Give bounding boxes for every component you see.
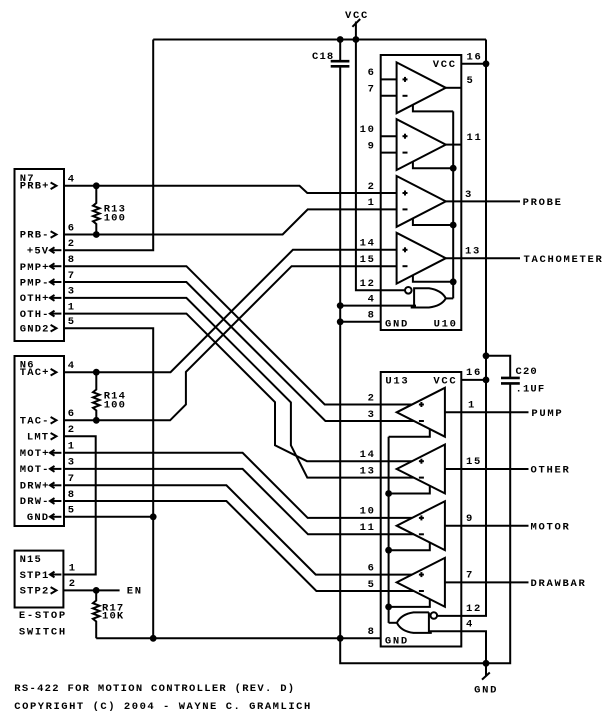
U13 enable net verticals and stubs — [385, 429, 430, 623]
svg-text:1: 1 — [68, 301, 76, 313]
svg-text:15: 15 — [466, 456, 482, 468]
svg-text:6: 6 — [368, 67, 376, 79]
svg-text:13: 13 — [465, 246, 481, 258]
svg-text:2: 2 — [69, 578, 77, 590]
wire U13 pin 16 stub to right rail — [461, 379, 486, 381]
U10 pin 9 stub — [381, 152, 397, 154]
svg-text:GND2: GND2 — [20, 324, 50, 336]
svg-text:U13: U13 — [385, 376, 409, 388]
svg-text:E-STOP: E-STOP — [19, 610, 67, 622]
svg-text:6: 6 — [368, 562, 376, 574]
svg-text:13: 13 — [360, 465, 376, 477]
svg-text:10: 10 — [360, 124, 376, 136]
svg-text:SWITCH: SWITCH — [19, 627, 67, 639]
op-amp U13B receiver OTHER — [397, 445, 445, 494]
svg-text:OTH+: OTH+ — [20, 293, 50, 305]
op-amp U10D receiver TACHOMETER — [397, 233, 446, 284]
svg-text:LMT: LMT — [27, 432, 49, 444]
op-amp U10A receiver — [397, 62, 446, 113]
svg-text:3: 3 — [68, 286, 76, 298]
node junction pin16 U13 on right rail — [483, 377, 490, 384]
N6 pin 2 LMT — [27, 424, 76, 444]
svg-text:N15: N15 — [20, 554, 42, 566]
svg-text:MOTOR: MOTOR — [531, 521, 571, 533]
power symbol VCC — [345, 10, 369, 41]
svg-text:2: 2 — [368, 393, 376, 405]
svg-text:VCC: VCC — [433, 59, 457, 71]
N6 pin 4 TAC+ — [20, 360, 76, 379]
svg-text:3: 3 — [465, 189, 473, 201]
svg-text:COPYRIGHT (C) 2004 - WAYNE C.: COPYRIGHT (C) 2004 - WAYNE C. GRAMLICH — [14, 701, 312, 713]
svg-text:11: 11 — [360, 522, 376, 534]
resistor R14 — [93, 369, 126, 424]
svg-text:DRW+: DRW+ — [20, 481, 50, 493]
N6 pin 7 DRW+ — [20, 473, 76, 492]
svg-text:MOT-: MOT- — [20, 464, 50, 476]
svg-text:EN: EN — [127, 586, 143, 598]
svg-text:100: 100 — [104, 213, 126, 225]
svg-text:5: 5 — [68, 316, 76, 328]
svg-text:14: 14 — [360, 449, 376, 461]
svg-text:7: 7 — [466, 570, 474, 582]
svg-text:8: 8 — [68, 489, 76, 501]
U13 enable OR gate with inverted pin 12 input — [368, 603, 482, 638]
capacitor C18 — [312, 40, 349, 67]
svg-text:10: 10 — [360, 506, 376, 518]
wire +5V from N7 up to VCC rail — [64, 40, 153, 251]
svg-text:6: 6 — [68, 222, 76, 234]
svg-text:7: 7 — [368, 84, 376, 96]
svg-text:STP2: STP2 — [20, 586, 50, 598]
wire U13 pin 4 down to ground line — [430, 631, 487, 663]
wire MOT- to U13 pin 11 — [64, 469, 414, 534]
svg-text:.1UF: .1UF — [516, 383, 546, 395]
N6 pin 5 GND — [27, 505, 76, 524]
N6 pin 1 MOT+ — [20, 441, 76, 460]
node junction pin16 U10 on right rail — [483, 60, 490, 67]
wire U10 pin 8 from ground rail — [340, 321, 381, 323]
svg-text:8: 8 — [68, 254, 76, 266]
svg-text:GND: GND — [385, 636, 409, 648]
resistor R17 — [93, 590, 124, 638]
svg-text:PROBE: PROBE — [523, 197, 563, 209]
wire PMP- to U13 pin 3 — [64, 282, 414, 421]
svg-text:1: 1 — [69, 562, 77, 574]
svg-text:PMP-: PMP- — [20, 278, 50, 290]
wire DRAWBAR output — [445, 581, 529, 583]
svg-text:2: 2 — [68, 238, 76, 250]
U10 pin 7 stub — [381, 95, 397, 97]
svg-text:PRB+: PRB+ — [20, 181, 50, 193]
svg-text:MOT+: MOT+ — [20, 448, 50, 460]
svg-text:DRAWBAR: DRAWBAR — [531, 578, 587, 590]
svg-text:9: 9 — [466, 513, 474, 525]
N7 pin 6 PRB- — [20, 222, 76, 241]
svg-text:4: 4 — [68, 360, 76, 372]
svg-text:4: 4 — [368, 293, 376, 305]
node junction GND2 rail on R17 row — [150, 635, 157, 642]
svg-text:PRB-: PRB- — [20, 230, 50, 242]
svg-text:U10: U10 — [434, 319, 458, 331]
svg-text:TACHOMETER: TACHOMETER — [524, 254, 604, 266]
wire MOTOR output — [445, 525, 529, 527]
svg-text:GND: GND — [385, 319, 409, 331]
svg-text:+5V: +5V — [27, 246, 49, 258]
N6 pin 8 DRW- — [20, 489, 76, 508]
capacitor C20 — [486, 356, 545, 396]
node VCC junction at VCC symbol — [353, 36, 360, 43]
resistor R13 — [93, 182, 126, 238]
N15 pin 1 STP1 — [20, 562, 77, 582]
svg-text:1: 1 — [368, 197, 376, 209]
wire GND N6 to GND2 rail — [64, 516, 153, 518]
wire STP2 to EN — [64, 589, 120, 591]
svg-text:5: 5 — [68, 505, 76, 517]
svg-text:14: 14 — [360, 238, 376, 250]
node junction U10 pin 8 on ground rail — [337, 318, 344, 325]
wire OTH+ to U13 pin 13 — [64, 298, 414, 478]
wire TAC+ to U10 pin 14 — [64, 250, 397, 372]
IC U13 box — [381, 372, 462, 647]
svg-text:2: 2 — [68, 424, 76, 436]
svg-text:1: 1 — [68, 441, 76, 453]
op-amp U10C receiver PROBE — [397, 176, 446, 227]
svg-text:1: 1 — [468, 400, 476, 412]
N7 pin 8 PMP+ — [20, 254, 76, 274]
svg-text:5: 5 — [467, 75, 475, 87]
svg-text:9: 9 — [368, 140, 376, 152]
node VCC junction at C18 — [337, 36, 344, 43]
N15 pin 2 STP2 — [20, 578, 77, 597]
wire VCC right rail down to U13 pin 12 — [436, 40, 486, 616]
connector N6 — [15, 356, 65, 526]
node junction ground rail / R17 row — [337, 635, 344, 642]
N7 pin 3 OTH+ — [20, 286, 76, 305]
N6 pin 6 TAC- — [20, 408, 76, 427]
U10 pin 5 output stub — [446, 87, 462, 89]
svg-text:4: 4 — [466, 619, 474, 631]
IC U10 box — [381, 55, 462, 330]
svg-text:STP1: STP1 — [20, 570, 50, 582]
svg-text:6: 6 — [68, 408, 76, 420]
svg-text:7: 7 — [68, 270, 76, 282]
ground symbol GND — [474, 663, 498, 696]
wire OTHER output — [445, 468, 529, 470]
svg-text:16: 16 — [467, 51, 483, 63]
op-amp U13A receiver PUMP — [397, 388, 445, 437]
svg-text:PUMP: PUMP — [531, 408, 563, 420]
U10 pin 11 output stub — [446, 144, 462, 146]
node junction U10 pin 4 on ground rail — [337, 302, 344, 309]
svg-text:RS-422 FOR MOTION CONTROLLER (: RS-422 FOR MOTION CONTROLLER (REV. D) — [14, 683, 296, 695]
svg-text:3: 3 — [68, 457, 76, 469]
svg-text:C20: C20 — [516, 366, 538, 378]
svg-text:12: 12 — [360, 278, 376, 290]
svg-text:7: 7 — [68, 473, 76, 485]
svg-text:GND: GND — [474, 684, 498, 696]
svg-text:5: 5 — [368, 579, 376, 591]
svg-text:10K: 10K — [102, 610, 124, 622]
N7 pin 7 PMP- — [20, 270, 76, 290]
wire DRW- to U13 pin 5 — [64, 501, 414, 591]
wire PROBE output — [446, 200, 520, 202]
svg-text:DRW-: DRW- — [20, 496, 50, 508]
wire VCC to U10 pin 12 — [356, 40, 405, 291]
N7 pin 2 +5V — [27, 238, 76, 258]
node junction C20 branch on right rail — [483, 352, 490, 359]
wire VCC top rail — [153, 39, 486, 41]
U10 enable OR gate with inverted pin 12 input — [360, 278, 454, 322]
svg-text:PMP+: PMP+ — [20, 262, 50, 274]
svg-text:2: 2 — [368, 181, 376, 193]
wire U10 pin 16 stub to VCC right rail — [461, 63, 486, 65]
wire PUMP output — [445, 411, 529, 413]
wire PRB- to U10 pin 1 — [64, 209, 397, 234]
svg-text:VCC: VCC — [433, 376, 457, 388]
wire LMT to STP1 — [64, 436, 96, 574]
wire R17 row to U13 pin 8 — [96, 637, 381, 639]
svg-text:GND: GND — [27, 512, 49, 524]
U10 pin 10 stub — [381, 135, 397, 137]
U10 pin 6 stub — [381, 78, 397, 80]
connector N7 — [15, 169, 65, 341]
svg-text:VCC: VCC — [345, 10, 369, 22]
svg-text:OTH-: OTH- — [20, 309, 50, 321]
svg-text:TAC-: TAC- — [20, 416, 50, 428]
op-amp U13D receiver DRAWBAR — [397, 558, 445, 607]
svg-text:3: 3 — [368, 409, 376, 421]
wire OTH- to U13 pin 14 — [64, 314, 412, 462]
svg-text:15: 15 — [360, 254, 376, 266]
svg-text:11: 11 — [467, 132, 483, 144]
op-amp U10B receiver — [397, 119, 446, 170]
svg-text:8: 8 — [368, 310, 376, 322]
wire TACHOMETER output — [446, 257, 520, 259]
N7 pin 1 OTH- — [20, 301, 76, 320]
wire U10 pin 4 from ground rail — [340, 305, 416, 307]
svg-text:OTHER: OTHER — [531, 465, 571, 477]
node junction STP2 / R17 — [93, 587, 100, 594]
svg-text:8: 8 — [368, 626, 376, 638]
wire TAC- to U10 pin 15 — [64, 266, 397, 420]
wire MOT+ to U13 pin 10 — [64, 453, 412, 518]
node junction ground bottom — [483, 660, 490, 667]
connector N15 — [15, 551, 64, 608]
N7 pin 4 PRB+ — [20, 174, 76, 193]
wire PMP+ to U13 pin 2 — [64, 266, 412, 404]
N6 pin 3 MOT- — [20, 457, 76, 476]
node junction GND wire / GND2 rail — [150, 513, 157, 520]
svg-text:16: 16 — [466, 367, 482, 379]
svg-text:12: 12 — [466, 603, 482, 615]
wire PRB+ to U10 pin 2 — [64, 186, 397, 193]
wire DRW+ to U13 pin 6 — [64, 485, 412, 574]
op-amp U13C receiver MOTOR — [397, 501, 445, 550]
U10 enable net verticals and stubs — [413, 105, 457, 299]
wire GND2 down to ground row — [64, 328, 153, 638]
svg-text:4: 4 — [68, 174, 76, 186]
N7 pin 5 GND2 — [20, 316, 76, 336]
svg-text:100: 100 — [104, 399, 126, 411]
svg-text:TAC+: TAC+ — [20, 367, 50, 379]
wire ground rail from C18 down and along bottom to C20 — [340, 66, 510, 663]
